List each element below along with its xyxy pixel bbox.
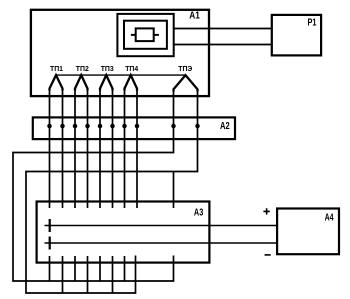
svg-text:ТП4: ТП4 [125, 64, 139, 73]
svg-text:Р1: Р1 [308, 18, 317, 29]
svg-text:ТПЭ: ТПЭ [178, 64, 192, 73]
svg-text:А1: А1 [189, 11, 200, 22]
svg-text:А3: А3 [194, 207, 204, 218]
svg-text:ТП1: ТП1 [50, 64, 64, 73]
svg-text:А2: А2 [220, 121, 230, 132]
svg-text:ТП2: ТП2 [76, 64, 89, 73]
svg-text:ТП3: ТП3 [101, 64, 114, 73]
svg-text:А4: А4 [325, 213, 334, 224]
